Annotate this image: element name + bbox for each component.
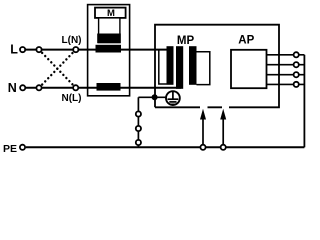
transformer primary outline [159,50,167,84]
probe arrow 2 head [220,109,226,120]
terminal circle output 1 [294,52,299,57]
terminal circle L input [20,47,25,52]
meter L current coil bar [96,45,122,53]
probe arrow 1 head [200,109,206,120]
probe arrow 1 shaft [202,119,204,145]
terminal circle N switch [36,85,41,90]
terminal circle chain 2 [136,126,141,131]
transformer secondary outline [197,52,210,85]
terminal circle N(L) [73,85,78,90]
block AP box [231,50,267,88]
junction dot on enclosure edge [152,94,158,100]
earth symbol bar 3 [171,103,175,105]
wire N line [26,87,181,89]
terminal circle output 2 [294,62,299,67]
terminal circle L switch [36,47,41,52]
svg-text:L: L [10,42,18,56]
meter stem black fill [97,34,121,44]
svg-text:MP: MP [177,35,195,47]
svg-text:PE: PE [3,143,17,155]
wire polarity swap dashed diagonal 2 [42,53,72,85]
earth symbol vertical stroke [172,92,174,99]
terminal circle output 4 [294,82,299,87]
wire right bus down [303,55,305,148]
device under test enclosure box [155,25,279,108]
terminal circle chain 1 [136,111,141,116]
wire AP output 4 [267,83,305,85]
terminal circle probe 2 [221,145,226,150]
wire PE line [26,146,305,148]
transformer winding bar B1 [167,46,174,85]
transformer winding bar B3 [189,46,197,85]
meter N current coil bar [97,83,121,91]
terminal circle L(N) [73,47,78,52]
wire earth branch horizontal [138,96,165,98]
svg-text:AP: AP [238,35,254,47]
svg-text:L(N): L(N) [62,35,82,46]
wire AP output 2 [267,64,305,66]
terminal circle N input [20,85,25,90]
wire AP output 1 [267,54,305,56]
wire earth chain vertical [137,97,139,147]
transformer winding bar B2 [176,46,183,89]
svg-text:N(L): N(L) [62,93,82,104]
terminal circle PE [20,145,25,150]
protective earth symbol circle [166,91,180,105]
wire AP output 3 [267,74,305,76]
terminal circle chain 3 [136,140,141,145]
earth symbol bar 1 [168,98,179,100]
wire polarity swap dashed diagonal 1 [42,53,72,85]
svg-text:N: N [8,81,17,95]
probe arrow 2 shaft [222,119,224,145]
terminal circle output 3 [294,72,299,77]
meter stem outline [99,18,120,43]
earth symbol bar 2 [169,101,176,103]
wire L line [26,49,168,51]
terminal circle probe 1 [200,145,205,150]
meter M label box [95,8,126,18]
meter M outer box [88,5,130,96]
